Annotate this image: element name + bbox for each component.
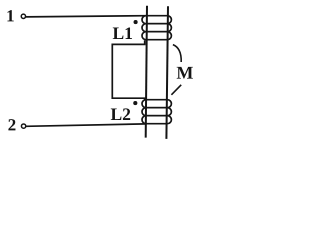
- core left bar: [146, 6, 147, 138]
- pointer arc from M to L1: [173, 45, 181, 62]
- label inductor L2: [111, 108, 130, 120]
- inductor L2 turn 2: [142, 108, 171, 116]
- label inductor L1: [113, 27, 132, 39]
- label mutual inductance M: [177, 67, 193, 79]
- polarity dot for L2: [133, 101, 137, 105]
- wire loop connecting L1 to L2: [112, 40, 144, 100]
- inductor L2 turn 1: [142, 100, 171, 108]
- terminal 1: [21, 14, 25, 18]
- wire from terminal 2 to L2: [26, 124, 146, 126]
- pointer line from M to L2: [171, 85, 181, 95]
- wire from terminal 1 to L1: [26, 16, 147, 17]
- core right bar: [166, 6, 168, 139]
- inductor L1 turn 1: [142, 16, 171, 24]
- inductor L2 turn 3: [142, 116, 171, 124]
- inductor L1 turn 2: [142, 24, 171, 32]
- terminal 2: [21, 124, 25, 128]
- label terminal 1: [7, 10, 13, 21]
- inductor L1 turn 3: [142, 32, 171, 40]
- polarity dot for L1: [134, 20, 138, 24]
- label terminal 2: [8, 119, 15, 130]
